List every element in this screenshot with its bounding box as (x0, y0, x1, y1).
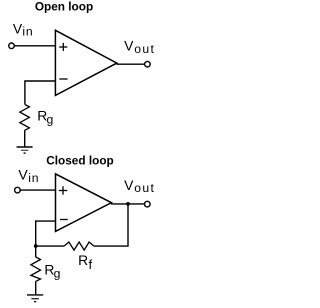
svg-text:Vin: Vin (13, 20, 34, 38)
svg-text:Open loop: Open loop (35, 0, 93, 13)
svg-text:Rg: Rg (37, 108, 53, 127)
svg-text:Vout: Vout (124, 177, 155, 195)
svg-text:Closed loop: Closed loop (46, 153, 114, 167)
svg-text:Rf: Rf (78, 252, 92, 272)
svg-text:Rg: Rg (44, 261, 60, 280)
svg-text:Vin: Vin (18, 167, 39, 185)
svg-text:Vout: Vout (124, 38, 155, 56)
